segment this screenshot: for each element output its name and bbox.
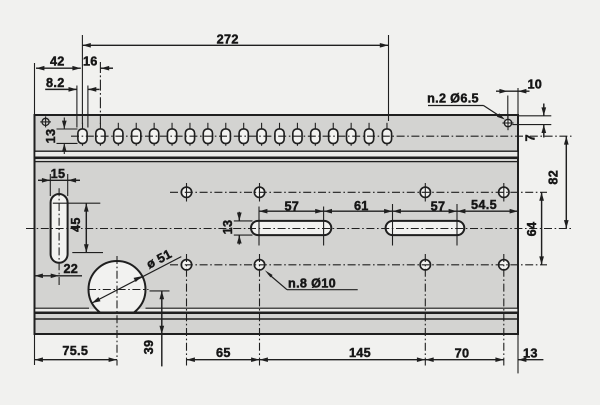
label n.2 leader	[484, 106, 506, 120]
dim 145 line	[260, 357, 426, 362]
dim 272 line	[82, 43, 388, 48]
hole 10dia H4	[499, 187, 509, 197]
middle slot A	[251, 221, 331, 235]
top slot S5	[150, 123, 159, 146]
upper hole tick col4	[503, 183, 505, 202]
dim 272 left extension	[81, 35, 83, 124]
dim 75.5 line	[35, 357, 118, 362]
left edge extension (42 / 75.5)	[34, 63, 36, 365]
corner datum mark (circle-cross)	[40, 116, 51, 127]
dim 8.2 left extension	[76, 86, 78, 128]
svg-text:75.5: 75.5	[62, 344, 88, 358]
chain arrow at right edge	[510, 209, 518, 214]
right edge extension below (13)	[517, 334, 519, 373]
svg-text:13: 13	[523, 346, 538, 360]
bottom band light strip	[35, 309, 517, 312]
top slot S3	[114, 123, 123, 146]
chain arrows at 392.5	[384, 209, 401, 214]
dim 15 line with arrows	[38, 178, 80, 183]
dim 16 extension (slot 2 centerline)	[99, 62, 101, 124]
upper hole row centerline	[170, 191, 547, 193]
svg-text:7: 7	[524, 134, 538, 141]
chain arrows at 457	[449, 209, 466, 214]
dim 64 line	[539, 192, 544, 264]
chain tick 457	[456, 204, 458, 246]
chain arrows at 259	[259, 209, 267, 214]
big circle horizontal centerline	[88, 289, 149, 291]
svg-text:64: 64	[525, 222, 539, 237]
hole 10dia H3	[420, 187, 430, 197]
upper hole tick col3	[424, 183, 426, 202]
dim 45 line	[84, 203, 89, 252]
svg-text:272: 272	[217, 32, 239, 46]
top slot S14	[311, 123, 320, 146]
hole 10dia H2	[254, 187, 264, 197]
column extension line col1	[186, 254, 188, 366]
top slot S15	[329, 123, 338, 146]
hole 10dia H5	[181, 260, 191, 270]
bottom band fold line lower	[35, 318, 519, 320]
svg-text:8.2: 8.2	[46, 76, 65, 90]
dim 42 line	[36, 66, 81, 71]
svg-text:39: 39	[142, 340, 156, 355]
svg-text:57: 57	[284, 200, 299, 214]
left vertical slot	[51, 194, 68, 263]
top slot S7	[185, 123, 194, 146]
middle slot B	[386, 221, 465, 235]
dim 7 extensions	[512, 116, 551, 125]
dim 22 line	[35, 273, 83, 278]
column extension line col4	[503, 254, 505, 366]
dim 272 right extension	[388, 35, 390, 121]
middle row centerline	[26, 228, 572, 230]
lower hole row centerline	[170, 264, 547, 266]
top slot S10	[239, 123, 248, 146]
dim 45 extensions	[53, 203, 103, 252]
top slot S12	[275, 123, 284, 146]
dim 7 arrows	[541, 104, 546, 138]
label n.8 leader	[265, 270, 287, 289]
plate body	[35, 115, 519, 334]
top band fold line lower	[35, 161, 519, 163]
svg-text:61: 61	[354, 199, 369, 213]
chain arrows at 323.6	[315, 209, 332, 214]
svg-text:13: 13	[44, 129, 58, 144]
top band light strip	[35, 152, 517, 157]
chain tick 323.6	[323, 207, 325, 246]
dim dia51 arrows	[92, 276, 142, 303]
column extension line col2	[259, 254, 261, 366]
svg-text:42: 42	[50, 55, 65, 69]
svg-text:n.8 Ø10: n.8 Ø10	[288, 276, 336, 290]
top slot S13	[293, 123, 302, 146]
upper hole tick col2	[259, 183, 261, 202]
dim 15 extensions	[50, 174, 67, 196]
hole 10dia H8	[499, 260, 509, 270]
dim 8.2 line with arrows	[45, 87, 99, 92]
chain tick 259	[258, 207, 260, 246]
bottom band fold line upper (interrupted by circle)	[35, 307, 90, 309]
hole 6.5 cross ticks	[502, 116, 513, 130]
dim 70 line	[425, 357, 504, 362]
label n.8 underline	[287, 289, 358, 291]
dim 16 line and right arrow	[101, 66, 113, 71]
dim 82 line	[564, 136, 569, 228]
dim chain line middle	[259, 210, 518, 212]
dim 13 bottom line	[518, 357, 543, 362]
top slot row centerline	[71, 135, 572, 137]
hole 6.5dia	[504, 119, 511, 126]
top slot S9	[221, 123, 230, 146]
svg-text:45: 45	[69, 217, 83, 232]
dim 39 line	[159, 291, 164, 367]
top band fold line upper	[35, 150, 519, 152]
upper hole tick col1	[186, 183, 188, 202]
top slot S8	[203, 123, 212, 146]
dim 13 extensions	[57, 129, 78, 143]
dim 13 slotA arrows	[237, 212, 242, 245]
top slot S16	[347, 123, 356, 146]
svg-text:n.2 Ø6.5: n.2 Ø6.5	[427, 91, 479, 105]
svg-text:57: 57	[431, 200, 446, 214]
dim 10 left extension (hole centerline up)	[507, 96, 509, 120]
svg-text:54.5: 54.5	[471, 198, 497, 212]
svg-text:15: 15	[51, 167, 66, 181]
top slot S11	[257, 123, 266, 146]
big circle vertical centerline / 75.5 extension	[116, 256, 118, 366]
top slot S2	[96, 123, 105, 146]
top band fold line thick	[35, 157, 519, 160]
top slot S6	[167, 123, 176, 146]
top slot S18	[382, 123, 391, 146]
svg-text:70: 70	[455, 346, 470, 360]
svg-text:145: 145	[349, 346, 371, 360]
dim 13 slot height lines	[62, 118, 67, 155]
dim dia51 leader line	[92, 257, 181, 303]
dim 10 right extension (plate edge up)	[517, 88, 519, 115]
hole 10dia H6	[254, 260, 264, 270]
svg-text:10: 10	[527, 78, 542, 92]
dim 13 slotA extensions	[234, 221, 253, 235]
label n.2 underline	[428, 105, 484, 107]
svg-text:16: 16	[83, 55, 98, 69]
top slot S1	[78, 123, 87, 146]
chain tick 392.5	[392, 204, 394, 246]
dim 8.2 right extension	[87, 86, 89, 128]
dim 65 line	[187, 357, 260, 362]
bottom band fold line thick	[35, 312, 519, 315]
dim 39 extension at circle center	[150, 290, 170, 292]
top slot S4	[132, 123, 141, 146]
hole 10dia H1	[181, 187, 191, 197]
svg-text:65: 65	[216, 346, 231, 360]
svg-text:13: 13	[221, 220, 235, 235]
dim 10 line	[496, 89, 530, 94]
column extension line col3	[424, 254, 426, 366]
left slot vertical centerline	[58, 188, 60, 285]
svg-text:22: 22	[63, 262, 78, 276]
top slot S17	[364, 123, 373, 146]
hole 10dia H7	[420, 260, 430, 270]
svg-text:82: 82	[547, 170, 561, 185]
